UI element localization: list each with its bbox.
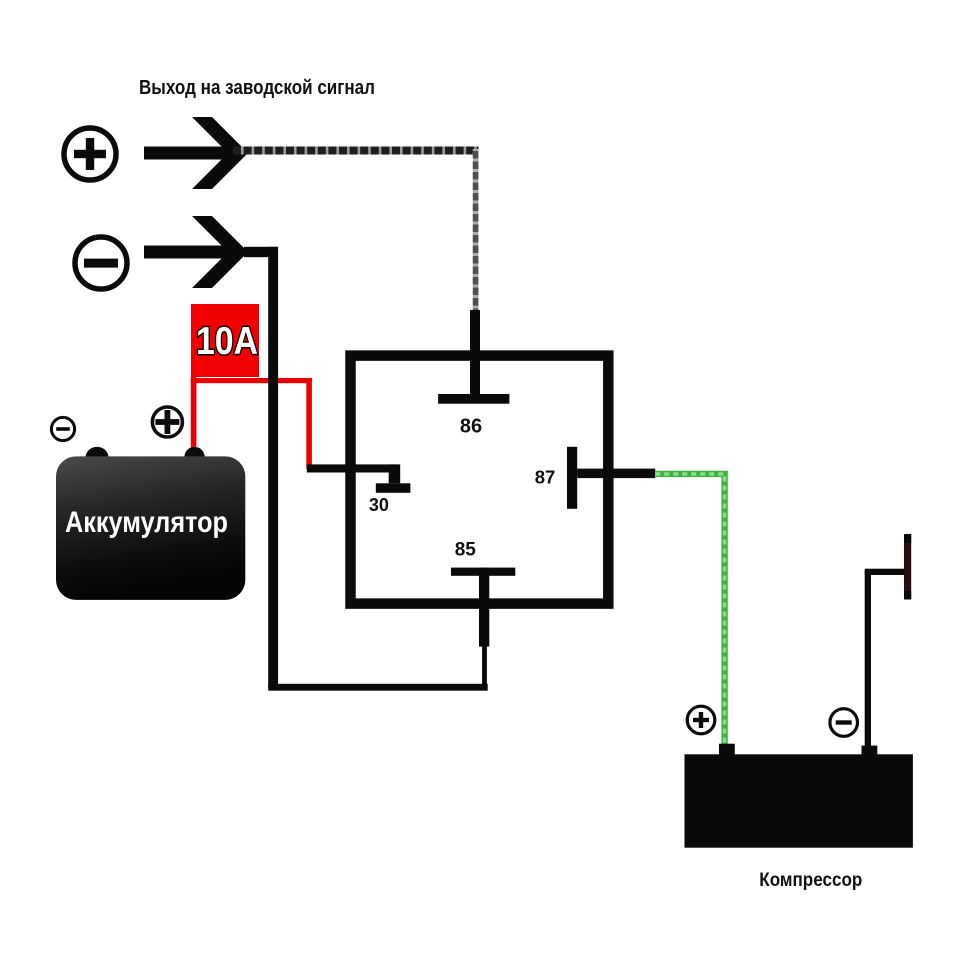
arrow from minus terminal bbox=[144, 216, 248, 288]
svg-text:Выход на заводской сигнал: Выход на заводской сигнал bbox=[139, 77, 375, 99]
battery plus mark bbox=[152, 407, 182, 437]
wire: gray dashed wire from + arrow to relay pin 86 bbox=[233, 149, 478, 311]
red wire: fuse to relay pin 30 bbox=[191, 378, 312, 469]
svg-text:86: 86 bbox=[460, 416, 482, 438]
green wire: pin 87 to compressor + bbox=[655, 474, 724, 745]
wire: pin 85 thin lead down to ground run bbox=[482, 645, 487, 688]
wire: compressor minus to chassis ground bbox=[865, 569, 906, 747]
relay pin 85 bbox=[451, 568, 515, 647]
relay K1 body bbox=[351, 356, 609, 604]
relay pin 86 bbox=[438, 310, 509, 404]
compressor body bbox=[685, 744, 913, 848]
chassis ground bar bbox=[904, 534, 911, 600]
compressor minus mark bbox=[830, 709, 858, 737]
minus terminal symbol (ground feed) bbox=[75, 237, 127, 289]
battery minus mark bbox=[51, 417, 74, 440]
fuse F1 10A bbox=[191, 304, 259, 377]
red wire: fuse to battery + terminal bbox=[191, 377, 197, 457]
svg-text:87: 87 bbox=[535, 467, 556, 488]
relay pin 87 bbox=[567, 447, 655, 509]
svg-text:85: 85 bbox=[455, 540, 477, 561]
wire: black ground wire from minus arrow down and right to pin 85 wire bbox=[244, 247, 488, 691]
svg-text:Аккумулятор: Аккумулятор bbox=[65, 506, 228, 539]
svg-text:30: 30 bbox=[369, 495, 389, 515]
arrow from plus terminal bbox=[144, 117, 248, 189]
compressor plus mark bbox=[687, 706, 715, 734]
relay pin 30 bbox=[307, 464, 411, 492]
battery body bbox=[56, 447, 245, 600]
svg-text:10A: 10A bbox=[196, 320, 258, 363]
plus terminal symbol (+12V feed) bbox=[64, 128, 116, 180]
svg-text:Компрессор: Компрессор bbox=[759, 869, 862, 891]
